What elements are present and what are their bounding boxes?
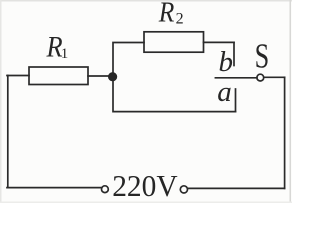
wire: resistor R1 to junction [88,75,109,77]
resistor R1 [29,67,88,85]
source terminal circle right [180,186,187,193]
svg-text:a: a [217,76,232,108]
wire: bottom left to source terminal [7,187,102,189]
wire: bottom right from source terminal [188,187,285,189]
switch S pivot circle [257,74,264,81]
wire: right side vertical [284,77,286,188]
label R2 [158,0,184,28]
contact b tick [233,42,235,65]
junction node [108,72,117,81]
scan edge shading [0,0,292,203]
svg-text:1: 1 [61,46,69,62]
resistor R2 [144,32,204,52]
wire: left wire to resistor R1 [7,75,29,77]
svg-text:R: R [158,0,175,28]
svg-text:b: b [219,46,234,78]
label R1 [46,31,69,64]
source terminal circle left [102,186,109,193]
wire: left side vertical [7,76,9,188]
switch S blade [215,77,257,79]
svg-text:220V: 220V [112,169,178,203]
wire: switch pivot to right corner [264,76,285,78]
wire: resistor R2 to contact b [204,41,235,43]
contact a tick [235,89,237,112]
svg-text:S: S [255,36,270,76]
paper background [0,0,292,203]
wire: junction down and across to contact a [113,77,236,112]
svg-text:2: 2 [176,11,184,28]
wire: junction up to R2 branch [113,43,144,77]
